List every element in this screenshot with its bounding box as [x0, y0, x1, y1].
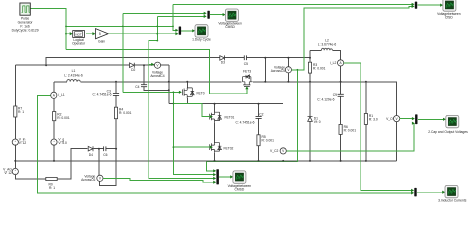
- svg-text:R: 0.001: R: 0.001: [344, 128, 357, 132]
- svg-text:R: 1: R: 1: [49, 186, 55, 190]
- svg-text:Vf: 0: Vf: 0: [314, 120, 321, 124]
- svg-text:C: 4.7451e-6: C: 4.7451e-6: [92, 92, 111, 96]
- svg-text:Operator: Operator: [72, 42, 86, 46]
- svg-text:L: 2.4194e-6: L: 2.4194e-6: [64, 74, 83, 78]
- svg-text:1.Duty Cycle: 1.Duty Cycle: [192, 37, 211, 41]
- svg-text:R: 0.001: R: 0.001: [262, 139, 275, 143]
- svg-text:C: 4.7451e-6: C: 4.7451e-6: [235, 121, 254, 125]
- svg-text:5: 5: [99, 32, 101, 36]
- svg-text:i_L1: i_L1: [58, 93, 65, 97]
- svg-text:R: 0.001: R: 0.001: [119, 111, 132, 115]
- svg-text:R: 1: R: 1: [18, 110, 24, 114]
- svg-text:C9: C9: [333, 93, 337, 97]
- svg-text:L1: L1: [72, 69, 76, 73]
- svg-text:CfSD: CfSD: [445, 16, 453, 20]
- svg-text:AcrossC4: AcrossC4: [150, 74, 164, 78]
- svg-text:C: 4.129e-6: C: 4.129e-6: [317, 98, 334, 102]
- svg-text:FET01: FET01: [225, 115, 235, 119]
- svg-text:2.Cap and Output Voltages: 2.Cap and Output Voltages: [428, 130, 468, 134]
- svg-text:C2: C2: [259, 113, 263, 117]
- svg-text:V: 12: V: 12: [4, 171, 12, 175]
- svg-text:FET02: FET02: [224, 146, 234, 150]
- svg-text:AcrossC6: AcrossC6: [81, 178, 95, 182]
- svg-text:D3: D3: [221, 60, 225, 64]
- svg-text:D2: D2: [131, 68, 135, 72]
- svg-text:C5: C5: [244, 62, 248, 66]
- svg-text:Gain: Gain: [98, 40, 105, 44]
- svg-text:V_C2: V_C2: [270, 149, 278, 153]
- svg-text:i_L2: i_L2: [330, 61, 337, 65]
- svg-text:R: 0.001: R: 0.001: [57, 116, 70, 120]
- svg-text:V: 12: V: 12: [19, 141, 27, 145]
- svg-text:V_O: V_O: [386, 117, 393, 121]
- svg-text:C6: C6: [103, 153, 107, 157]
- svg-text:L: 3.6774e-6: L: 3.6774e-6: [318, 43, 337, 47]
- svg-text:FET3: FET3: [243, 69, 251, 73]
- svg-text:FET0: FET0: [197, 92, 205, 96]
- svg-text:C4: C4: [135, 85, 139, 89]
- svg-text:NOT: NOT: [76, 32, 82, 36]
- svg-text:AcrossC5: AcrossC5: [271, 69, 285, 73]
- svg-text:V: 5.0: V: 5.0: [58, 141, 67, 145]
- svg-text:DutyCycle: 0.6129: DutyCycle: 0.6129: [12, 29, 39, 33]
- svg-text:D4: D4: [89, 153, 93, 157]
- svg-text:R: 0.001: R: 0.001: [313, 67, 326, 71]
- svg-text:3.Inductor Currents: 3.Inductor Currents: [438, 199, 467, 203]
- svg-text:CMSD: CMSD: [235, 188, 245, 192]
- svg-text:R: 3.0: R: 3.0: [369, 118, 378, 122]
- svg-text:CMSD: CMSD: [225, 25, 235, 29]
